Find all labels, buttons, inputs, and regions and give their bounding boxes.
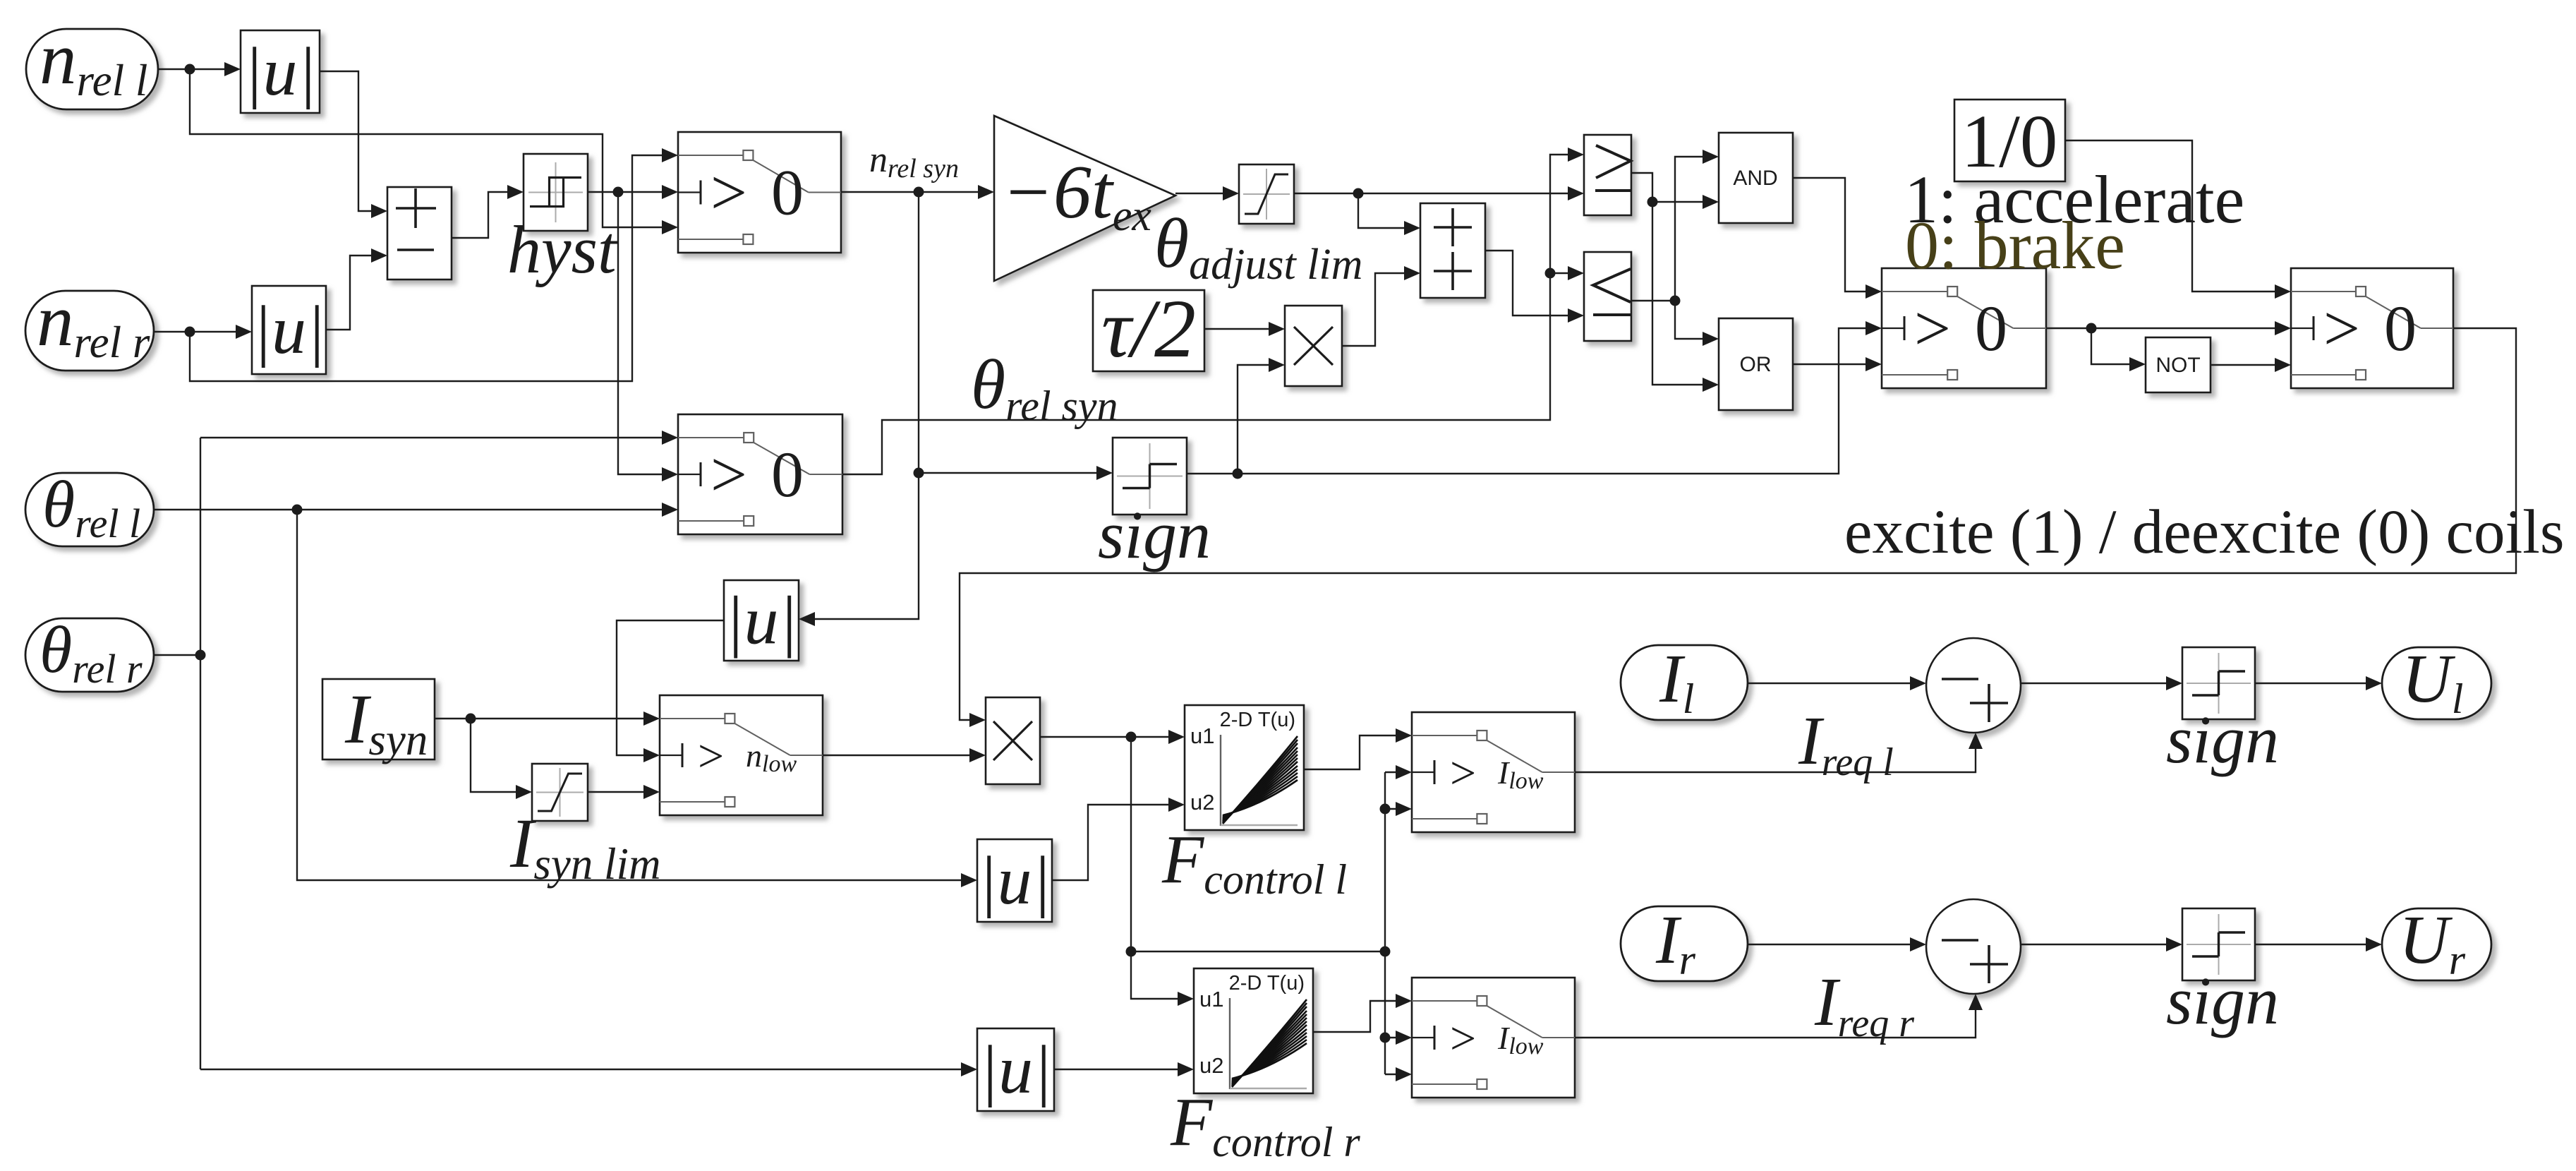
arrowhead into Switch5 in1 (643, 711, 660, 726)
arrowhead into F_control_l u1 (1168, 730, 1185, 744)
wire Abs2 to Add1 minus (326, 256, 375, 330)
arrowhead into Switch2 in3 (662, 503, 678, 517)
arrowhead into Add4 (1910, 937, 1926, 951)
constant block I_syn (322, 679, 435, 759)
wire n_rel_l branch to Switch1 in3 (190, 69, 665, 227)
switch block Switch5 (&gt; n_low) (660, 695, 823, 815)
wire n_rel_r branch to Switch1 in1 (190, 155, 665, 381)
arrowhead into Add2 in2 (1404, 266, 1420, 280)
switch block Switch6 (&gt; I_low) (1412, 712, 1575, 832)
svg-text:>: > (710, 157, 747, 229)
abs block Abs5 |u| (theta_rel_r) (977, 1028, 1054, 1111)
abs block Abs1 |u| (n_rel_l) (241, 30, 320, 113)
wire theta_rel_r stub (154, 654, 200, 656)
relay block hyst (524, 154, 588, 231)
wire Switch1 output n_rel_syn to gain (841, 191, 981, 193)
svg-text:>: > (698, 731, 724, 782)
wire I_syn branch to I_syn_lim (471, 719, 519, 792)
svg-text:|u|: |u| (244, 34, 317, 110)
wire Add1 to hyst (452, 192, 511, 238)
arrowhead up into Add3 (1969, 733, 1983, 749)
wire Product1 to Add2 in2 (1342, 273, 1408, 346)
svg-text:excite (1) / deexcite (0) coil: excite (1) / deexcite (0) coils (1844, 498, 2565, 567)
arrowhead into GE in2 (1568, 186, 1584, 200)
arrowhead into Switch4 in1 (2275, 284, 2291, 299)
svg-text:τ/2: τ/2 (1101, 282, 1196, 375)
sum circle Add3 (- +) left (1926, 638, 2021, 733)
junction rail to Switch6 in3 (1380, 804, 1391, 815)
svg-text:u2: u2 (1190, 790, 1214, 815)
arrowhead into Switch6 in3 (1396, 802, 1412, 816)
svg-text:OR: OR (1740, 353, 1772, 376)
wire I_syn_lim to Switch5 in3 (588, 791, 647, 793)
svg-text:>: > (1450, 1013, 1476, 1064)
wire Switch3 branch to NOT (2091, 328, 2133, 364)
junction rail to Switch7 in2 (1380, 1033, 1391, 1043)
wire Add3 to Sign2 (2021, 683, 2170, 684)
wire Sign3 to U_r (2255, 944, 2369, 945)
arrowhead into Sign2 (2166, 676, 2182, 690)
svg-text:sign: sign (2166, 702, 2279, 777)
junction LE output (1670, 296, 1681, 306)
junction switch rail (1380, 947, 1391, 957)
svg-text:|u|: |u| (979, 843, 1051, 919)
wire AND to Switch3 in1 (1793, 178, 1869, 292)
arrowhead into Switch4 in2 (2275, 321, 2291, 335)
arrowhead into Sign1 (1096, 466, 1113, 480)
junction I_syn output (466, 714, 476, 724)
wire theta_rel_r vertical (200, 438, 201, 1069)
wire GE output (1631, 173, 1706, 385)
arrowhead into Switch7 in1 (1396, 994, 1412, 1008)
svg-text:sign: sign (1098, 497, 1211, 572)
inport I_l (1621, 645, 1748, 720)
sign block Sign2 (left channel) (2182, 647, 2255, 719)
junction on n_rel_l wire (185, 64, 195, 75)
sum circle Add4 (- +) right (1926, 899, 2021, 994)
junction theta_rel_l (292, 505, 303, 515)
arrowhead into gain -6t_ex (978, 185, 994, 199)
abs block Abs3 |u| (n_rel_syn) (724, 580, 799, 661)
abs block Abs4 |u| (theta_rel_l) (977, 839, 1052, 922)
svg-text:0: brake: 0: brake (1905, 208, 2125, 283)
arrowhead into Product1 in1 (1269, 322, 1285, 336)
arrowhead into Switch2 in1 (662, 431, 678, 445)
junction on n_rel_r wire (185, 327, 195, 337)
arrowhead into Switch1 in2 (662, 185, 678, 199)
arrowhead into OR in1 (1703, 332, 1719, 346)
arrowhead into OR in2 (1703, 378, 1719, 392)
arrowhead into Product2 in1 (969, 713, 986, 727)
arrowhead into LE in2 (1568, 308, 1584, 323)
svg-text:2-D T(u): 2-D T(u) (1220, 709, 1295, 731)
arrowhead into Abs2 (236, 325, 252, 339)
wire LE output to AND in1 (1631, 157, 1706, 301)
product block Product2 (x) (986, 697, 1040, 784)
junction n_rel_syn to Sign1 (914, 468, 924, 479)
wire n_rel_syn down to Abs3 (811, 192, 919, 619)
outport U_r (2382, 908, 2491, 980)
arrowhead into Product2 in2 (969, 748, 986, 762)
arrowhead into Product1 in2 (1269, 358, 1285, 372)
wire rail to Switch6 in2 (1385, 771, 1399, 773)
relational operator block &gt;= (1584, 135, 1631, 215)
2-D lookup table F_control_r (1194, 968, 1313, 1093)
arrowhead into Switch1 in1 (662, 148, 678, 162)
outport U_l (2382, 647, 2491, 719)
arrowhead into Switch2 in2 (662, 467, 678, 481)
wire theta_adjust_lim to GE in2 (1294, 193, 1571, 194)
arrowhead into F_control_r u2 (1178, 1062, 1194, 1076)
wire 1/0 to Switch4 in1 (2065, 140, 2278, 292)
wire Abs5 to F_control_r u2 (1054, 1069, 1181, 1070)
wire theta_rel_syn branch to LE in1 (1550, 272, 1571, 274)
svg-text:AND: AND (1733, 167, 1777, 190)
arrowhead up into Add4 (1969, 994, 1983, 1010)
wire Sign2 to U_l (2255, 683, 2369, 684)
switch block Switch3 (&gt; 0) (1882, 268, 2046, 388)
svg-text:>: > (2323, 292, 2360, 364)
wire I_syn to Switch5 in1 (435, 718, 647, 719)
arrowhead into Switch1 in3 (662, 220, 678, 234)
wire n_rel_r to Abs2 (154, 331, 239, 332)
arrowhead into Abs5 (961, 1062, 977, 1076)
arrowhead into GE in1 (1568, 148, 1584, 162)
junction theta_rel_r (195, 650, 206, 661)
arrowhead into theta_adjust_lim (1223, 186, 1239, 200)
arrowhead into Switch6 in1 (1396, 728, 1412, 743)
wire Product2 branch to switch rail (1131, 951, 1385, 952)
wire rail to Switch7 in2 (1385, 1037, 1399, 1038)
wire F_control_l to Switch6 in1 (1304, 735, 1399, 769)
junction on Product2 branch (1126, 947, 1137, 957)
constant block 1/0 (1954, 100, 2065, 181)
arrowhead into F_control_l u2 (1168, 798, 1185, 812)
wire OR to Switch3 in3 (1793, 364, 1869, 365)
svg-text:u2: u2 (1199, 1053, 1223, 1078)
wire LE branch to OR in1 (1675, 301, 1706, 339)
arrowhead into Switch7 in3 (1396, 1067, 1412, 1081)
arrowhead into LE in1 (1568, 266, 1584, 280)
arrowhead into Abs3 (points left) (799, 612, 815, 626)
abs block Abs2 |u| (n_rel_r) (252, 286, 326, 374)
arrowhead into Switch5 in3 (643, 785, 660, 799)
arrowhead into AND in2 (1703, 195, 1719, 209)
arrowhead into Add1 minus (371, 248, 387, 263)
wire Switch2 output theta_rel_syn (842, 155, 1571, 474)
arrowhead into Switch6 in2 (1396, 765, 1412, 779)
logic block AND (1719, 133, 1793, 223)
inport n_rel_r (25, 291, 154, 371)
wire GE branch to AND in2 (1652, 201, 1706, 203)
svg-text:u1: u1 (1199, 987, 1223, 1011)
wire Abs3 to Switch5 in2 (617, 620, 724, 755)
switch block Switch7 (&gt; I_low) (1412, 978, 1575, 1098)
wire Switch6 I_req_l to Add3 (1575, 745, 1976, 772)
gain block -6t_ex (triangle) (994, 116, 1175, 281)
arrowhead into Abs1 (224, 62, 241, 76)
arrowhead into U_l (2366, 676, 2382, 690)
wire Sign1 output to Switch3 in2 (1187, 328, 1869, 474)
arrowhead into Switch5 in2 (643, 748, 660, 762)
junction theta_adjust output (1353, 188, 1364, 199)
logic block OR (1719, 318, 1793, 410)
switch block Switch4 (&gt; 0) (2291, 268, 2453, 388)
2-D lookup table F_control_l (1185, 705, 1304, 830)
arrowhead into Add2 in1 (1404, 221, 1420, 235)
wire Abs4 to F_control_l u2 (1052, 805, 1172, 880)
wire I_r to Add4 (1748, 944, 1913, 945)
junction Switch3 output (2086, 323, 2097, 334)
svg-text:NOT: NOT (2155, 354, 2200, 377)
switch block Switch2 (theta &gt; 0) (678, 414, 842, 534)
wire gain to theta_adjust_lim (1175, 193, 1226, 194)
wire rail to Switch6 in3 (1385, 808, 1399, 810)
logic block NOT (2146, 337, 2211, 392)
svg-text:2-D T(u): 2-D T(u) (1229, 972, 1305, 995)
wire theta_rel_r to Switch2 in1 (200, 437, 665, 438)
sign block Sign3 (right channel) (2182, 908, 2255, 980)
wire rail vertical (1384, 772, 1386, 1074)
wire Switch7 I_req_r to Add4 (1575, 1007, 1976, 1038)
wire I_l to Add3 (1748, 683, 1913, 684)
svg-text:|u|: |u| (979, 1032, 1052, 1108)
arrowhead into Abs4 (961, 873, 977, 887)
wire NOT to Switch4 in3 (2211, 364, 2278, 366)
wire rail to Switch7 in3 (1385, 1074, 1399, 1075)
arrowhead into F_control_r u1 (1178, 992, 1194, 1006)
junction Product2 output (1126, 732, 1137, 743)
svg-text:hyst: hyst (507, 212, 618, 287)
arrowhead into U_r (2366, 937, 2382, 951)
wire F_control_r to Switch7 in1 (1313, 1001, 1399, 1032)
product block Product1 (x) (1285, 306, 1342, 386)
inport theta_rel_l (25, 473, 154, 546)
wire hyst to Switch1 in2 (588, 191, 665, 193)
inport theta_rel_r (25, 618, 154, 692)
arrowhead into I_syn_lim (516, 785, 532, 799)
wire hyst branch to Switch2 in2 (618, 192, 665, 474)
svg-text:>: > (1450, 747, 1476, 799)
junction on hyst output (613, 187, 624, 198)
wire n_rel_l to Abs1 (158, 68, 228, 70)
arrowhead into hyst (507, 185, 524, 199)
arrowhead into Sign3 (2166, 937, 2182, 951)
svg-text:|u|: |u| (253, 292, 325, 368)
arrowhead into Switch7 in2 (1396, 1031, 1412, 1045)
wire theta_adjust branch to Add2 in1 (1358, 193, 1408, 228)
sign block Sign1 (1113, 438, 1187, 515)
wire theta_rel_l to Abs4 (297, 510, 965, 880)
svg-text:0: 0 (771, 438, 804, 510)
sum block Add2 (+ +) (1420, 203, 1485, 298)
arrowhead into Switch3 in3 (1866, 357, 1882, 371)
inport n_rel_l (26, 29, 158, 109)
junction theta_rel_syn to LE (1545, 268, 1556, 279)
svg-text:>: > (710, 438, 747, 510)
wire Add4 to Sign3 (2021, 944, 2170, 945)
svg-text:sign: sign (2166, 963, 2279, 1038)
wire Switch5 to Product2 in2 (823, 755, 973, 756)
saturation block theta_adjust_lim (1239, 164, 1294, 224)
arrowhead into Switch3 in2 (1866, 321, 1882, 335)
svg-text:|u|: |u| (725, 582, 798, 659)
junction GE output (1647, 197, 1658, 208)
svg-text:>: > (1914, 292, 1951, 364)
wire Add2 to LE in2 (1485, 251, 1571, 316)
wire Product2 to F_control_l u1 (1040, 736, 1172, 738)
constant block tau/2 (1093, 290, 1204, 371)
wire Abs1 to Add1 plus (320, 71, 375, 211)
arrowhead into AND in1 (1703, 150, 1719, 164)
arrowhead into Switch4 in3 (2275, 358, 2291, 372)
switch block Switch1 (n &gt; 0) (678, 132, 841, 253)
inport I_r (1621, 906, 1748, 981)
relational operator block &lt;= (1584, 252, 1631, 341)
wire n_rel_syn branch to Sign1 (919, 472, 1100, 474)
svg-text:0: 0 (2384, 292, 2417, 364)
wire Switch3 output to Switch4 in2 (2046, 328, 2278, 329)
wire theta_rel_l to Switch2 in3 (154, 509, 665, 510)
wire Sign1 branch to Product1 in2 (1238, 365, 1272, 474)
svg-text:u1: u1 (1190, 723, 1214, 748)
wire theta_rel_r to Abs5 (200, 1069, 965, 1070)
wire Switch4 output feedback to Product2 in1 (960, 328, 2516, 720)
junction Sign1 output (1233, 469, 1243, 479)
arrowhead into Switch3 in1 (1866, 284, 1882, 299)
wire tau/2 to Product1 in1 (1204, 328, 1272, 330)
svg-text:0: 0 (771, 157, 804, 229)
wire Product2 branch down to F_control_r u1 (1131, 737, 1181, 999)
junction n_rel_syn (914, 187, 924, 198)
saturation block I_syn_lim (532, 764, 588, 821)
sum block Add1 (+ -) (387, 187, 452, 280)
arrowhead into NOT (2129, 357, 2146, 371)
arrowhead into Add1 plus (371, 204, 387, 218)
svg-text:0: 0 (1975, 292, 2007, 364)
arrowhead into Add3 (1910, 676, 1926, 690)
